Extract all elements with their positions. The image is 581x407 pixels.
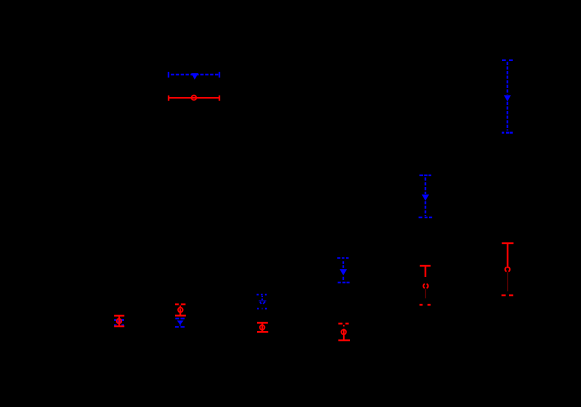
point3 blue errorbar (x=262) xyxy=(257,295,267,309)
point5 blue triangle marker xyxy=(422,195,429,201)
legend red errorbar sample xyxy=(169,95,220,100)
legend blue errorbar sample xyxy=(169,72,220,78)
point4 red errorbar (x=343.8) xyxy=(338,324,350,341)
point4 red circle marker xyxy=(341,330,346,335)
point1 blue triangle marker xyxy=(116,320,123,325)
point2 red circle marker xyxy=(178,308,183,313)
point5 red broken circle marker xyxy=(423,284,428,288)
point3 red errorbar (x=262) xyxy=(257,323,268,332)
point4 blue errorbar (x=343) xyxy=(337,258,349,283)
point4 blue triangle marker xyxy=(340,269,347,275)
point6 blue triangle marker xyxy=(504,95,511,101)
legend red circle marker xyxy=(192,95,197,100)
point5 blue errorbar (x=425) xyxy=(419,175,433,217)
point6 blue errorbar (x=507.4) xyxy=(502,60,513,133)
point2 blue triangle marker xyxy=(177,321,184,325)
point1 blue errorbar (x=119) xyxy=(114,320,124,325)
point3 red circle marker xyxy=(260,325,265,330)
point2 red errorbar (x=180) xyxy=(175,304,186,315)
point6 red errorbar (x=507.6) xyxy=(502,243,514,295)
legend blue triangle marker xyxy=(191,73,198,80)
point1 red circle marker xyxy=(117,319,122,324)
point3 blue open triangle marker xyxy=(259,301,267,304)
point2 blue vertical dash xyxy=(179,325,181,326)
point2 blue errorbar (x=180) xyxy=(175,319,185,327)
point1 red errorbar (x=119) xyxy=(114,316,124,327)
point5 red errorbar (x=425.4) xyxy=(420,266,431,305)
point6 red broken circle marker xyxy=(505,267,510,271)
